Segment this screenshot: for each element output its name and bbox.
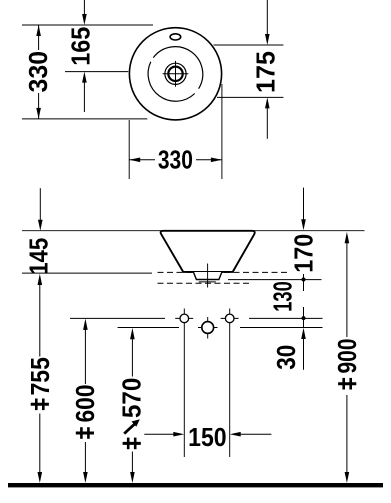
extension line inner-bowl top right (y=45) bbox=[214, 44, 284, 46]
svg-text:30: 30 bbox=[271, 345, 301, 370]
svg-text:165: 165 bbox=[65, 27, 95, 66]
drain axis vertical centerline bbox=[207, 264, 209, 288]
chain dimension 130 (x=303.5) bbox=[268, 281, 306, 327]
adjustable-height symbol for 755 bbox=[31, 399, 49, 411]
floor line bbox=[8, 483, 383, 487]
adjustable-height symbol for 570 bbox=[123, 438, 141, 450]
svg-text:150: 150 bbox=[188, 422, 227, 452]
svg-text:600: 600 bbox=[70, 385, 100, 423]
left fixing hole crosshair horizontal bbox=[175, 317, 193, 319]
counter bottom dashed line (y=283.2) bbox=[158, 282, 251, 284]
svg-text:130: 130 bbox=[268, 281, 298, 312]
fixing holes centerline right segment (y=318.4) bbox=[249, 317, 323, 319]
right fixing hole crosshair horizontal bbox=[221, 317, 239, 319]
fixing holes centerline left segment (y=318.4) bbox=[70, 317, 165, 319]
drain hole crosshair horizontal (y=327.5) bbox=[198, 327, 218, 329]
svg-text:175: 175 bbox=[251, 51, 281, 93]
extension line top tangent (y=25) bbox=[22, 24, 153, 26]
adjustable-height symbol for 600 bbox=[76, 427, 94, 439]
right fixing hole extension line down to 150 dim bbox=[229, 309, 231, 458]
rim level extension line (y=230.7) bbox=[22, 230, 365, 232]
chain node dot at fixing holes line bbox=[302, 316, 306, 320]
right fixing hole circle bbox=[225, 314, 234, 323]
foot bottom level extension line (y=279.6) bbox=[228, 279, 322, 281]
basin foot / drain fitting bbox=[193, 272, 222, 280]
drain crosshair vertical bbox=[175, 61, 177, 87]
svg-text:145: 145 bbox=[23, 238, 53, 275]
svg-text:570: 570 bbox=[117, 378, 147, 419]
dimension 165 vertical (x=84.4) bbox=[65, 0, 95, 112]
dimension 150 (y=434.2) bbox=[144, 422, 271, 452]
basin outer rim circle bbox=[129, 28, 221, 120]
overflow hole ellipse bbox=[170, 34, 181, 40]
dimension 175 vertical right (x=267.3) bbox=[251, 0, 281, 139]
svg-text:755: 755 bbox=[25, 357, 55, 396]
drain hole centerline left segment (y=327.5) bbox=[118, 327, 179, 329]
dimension 330 horizontal bottom (y=159.8) bbox=[129, 144, 222, 174]
counter top dashed line (y=272.4) bbox=[158, 271, 288, 273]
counter level solid extension (y=273.1) bbox=[22, 272, 152, 274]
diagonal arrow glyph of 570 label bbox=[124, 419, 140, 433]
drain crosshair horizontal bbox=[163, 73, 189, 75]
adjustable-height symbol for 900 bbox=[338, 378, 356, 390]
svg-text:330: 330 bbox=[23, 51, 53, 93]
dimension 145 (x=40.3) bbox=[23, 188, 53, 275]
basin body side view bbox=[161, 231, 255, 272]
drain inner circle bbox=[168, 67, 182, 81]
drain outer circle bbox=[165, 63, 186, 84]
extension line bottom tangent (y=118.9) bbox=[22, 118, 147, 120]
inner bowl arc lower bbox=[148, 62, 195, 101]
left fixing hole circle bbox=[180, 314, 189, 323]
dimension 600 vertical (x=85.4) bbox=[70, 319, 100, 483]
svg-text:170: 170 bbox=[288, 234, 318, 273]
chain dimension 30 (x=303.5) bbox=[271, 328, 306, 370]
inner bowl arc upper bbox=[153, 47, 202, 89]
dimension 330 vertical left (x=38.6) bbox=[23, 25, 53, 119]
chain node dot at counter bottom bbox=[303, 274, 305, 291]
extension line left tangent vertical (x=129.2) bbox=[128, 120, 130, 179]
extension line circle centerline left (y=71.6) bbox=[65, 71, 128, 73]
dimension 900 vertical (x=346.9) bbox=[332, 232, 362, 483]
drain hole crosshair vertical bbox=[207, 317, 209, 339]
svg-text:900: 900 bbox=[332, 339, 362, 374]
extension line inner-bowl bottom right (y=97.4) bbox=[217, 96, 283, 98]
dimension 755 vertical (x=39.8) bbox=[25, 274, 55, 483]
chain dimension 170 (x=303.5) bbox=[288, 188, 318, 291]
svg-text:330: 330 bbox=[158, 144, 193, 174]
drain axis horizontal tick bbox=[199, 281, 216, 283]
dimension 570 vertical (x=132.4) bbox=[117, 328, 147, 483]
drain hole circle bbox=[202, 322, 214, 334]
drain hole centerline right segment (y=327.5) bbox=[240, 327, 323, 329]
extension line right tangent vertical (x=221.9) bbox=[221, 84, 223, 179]
left fixing hole extension line down to 150 dim bbox=[183, 309, 185, 458]
